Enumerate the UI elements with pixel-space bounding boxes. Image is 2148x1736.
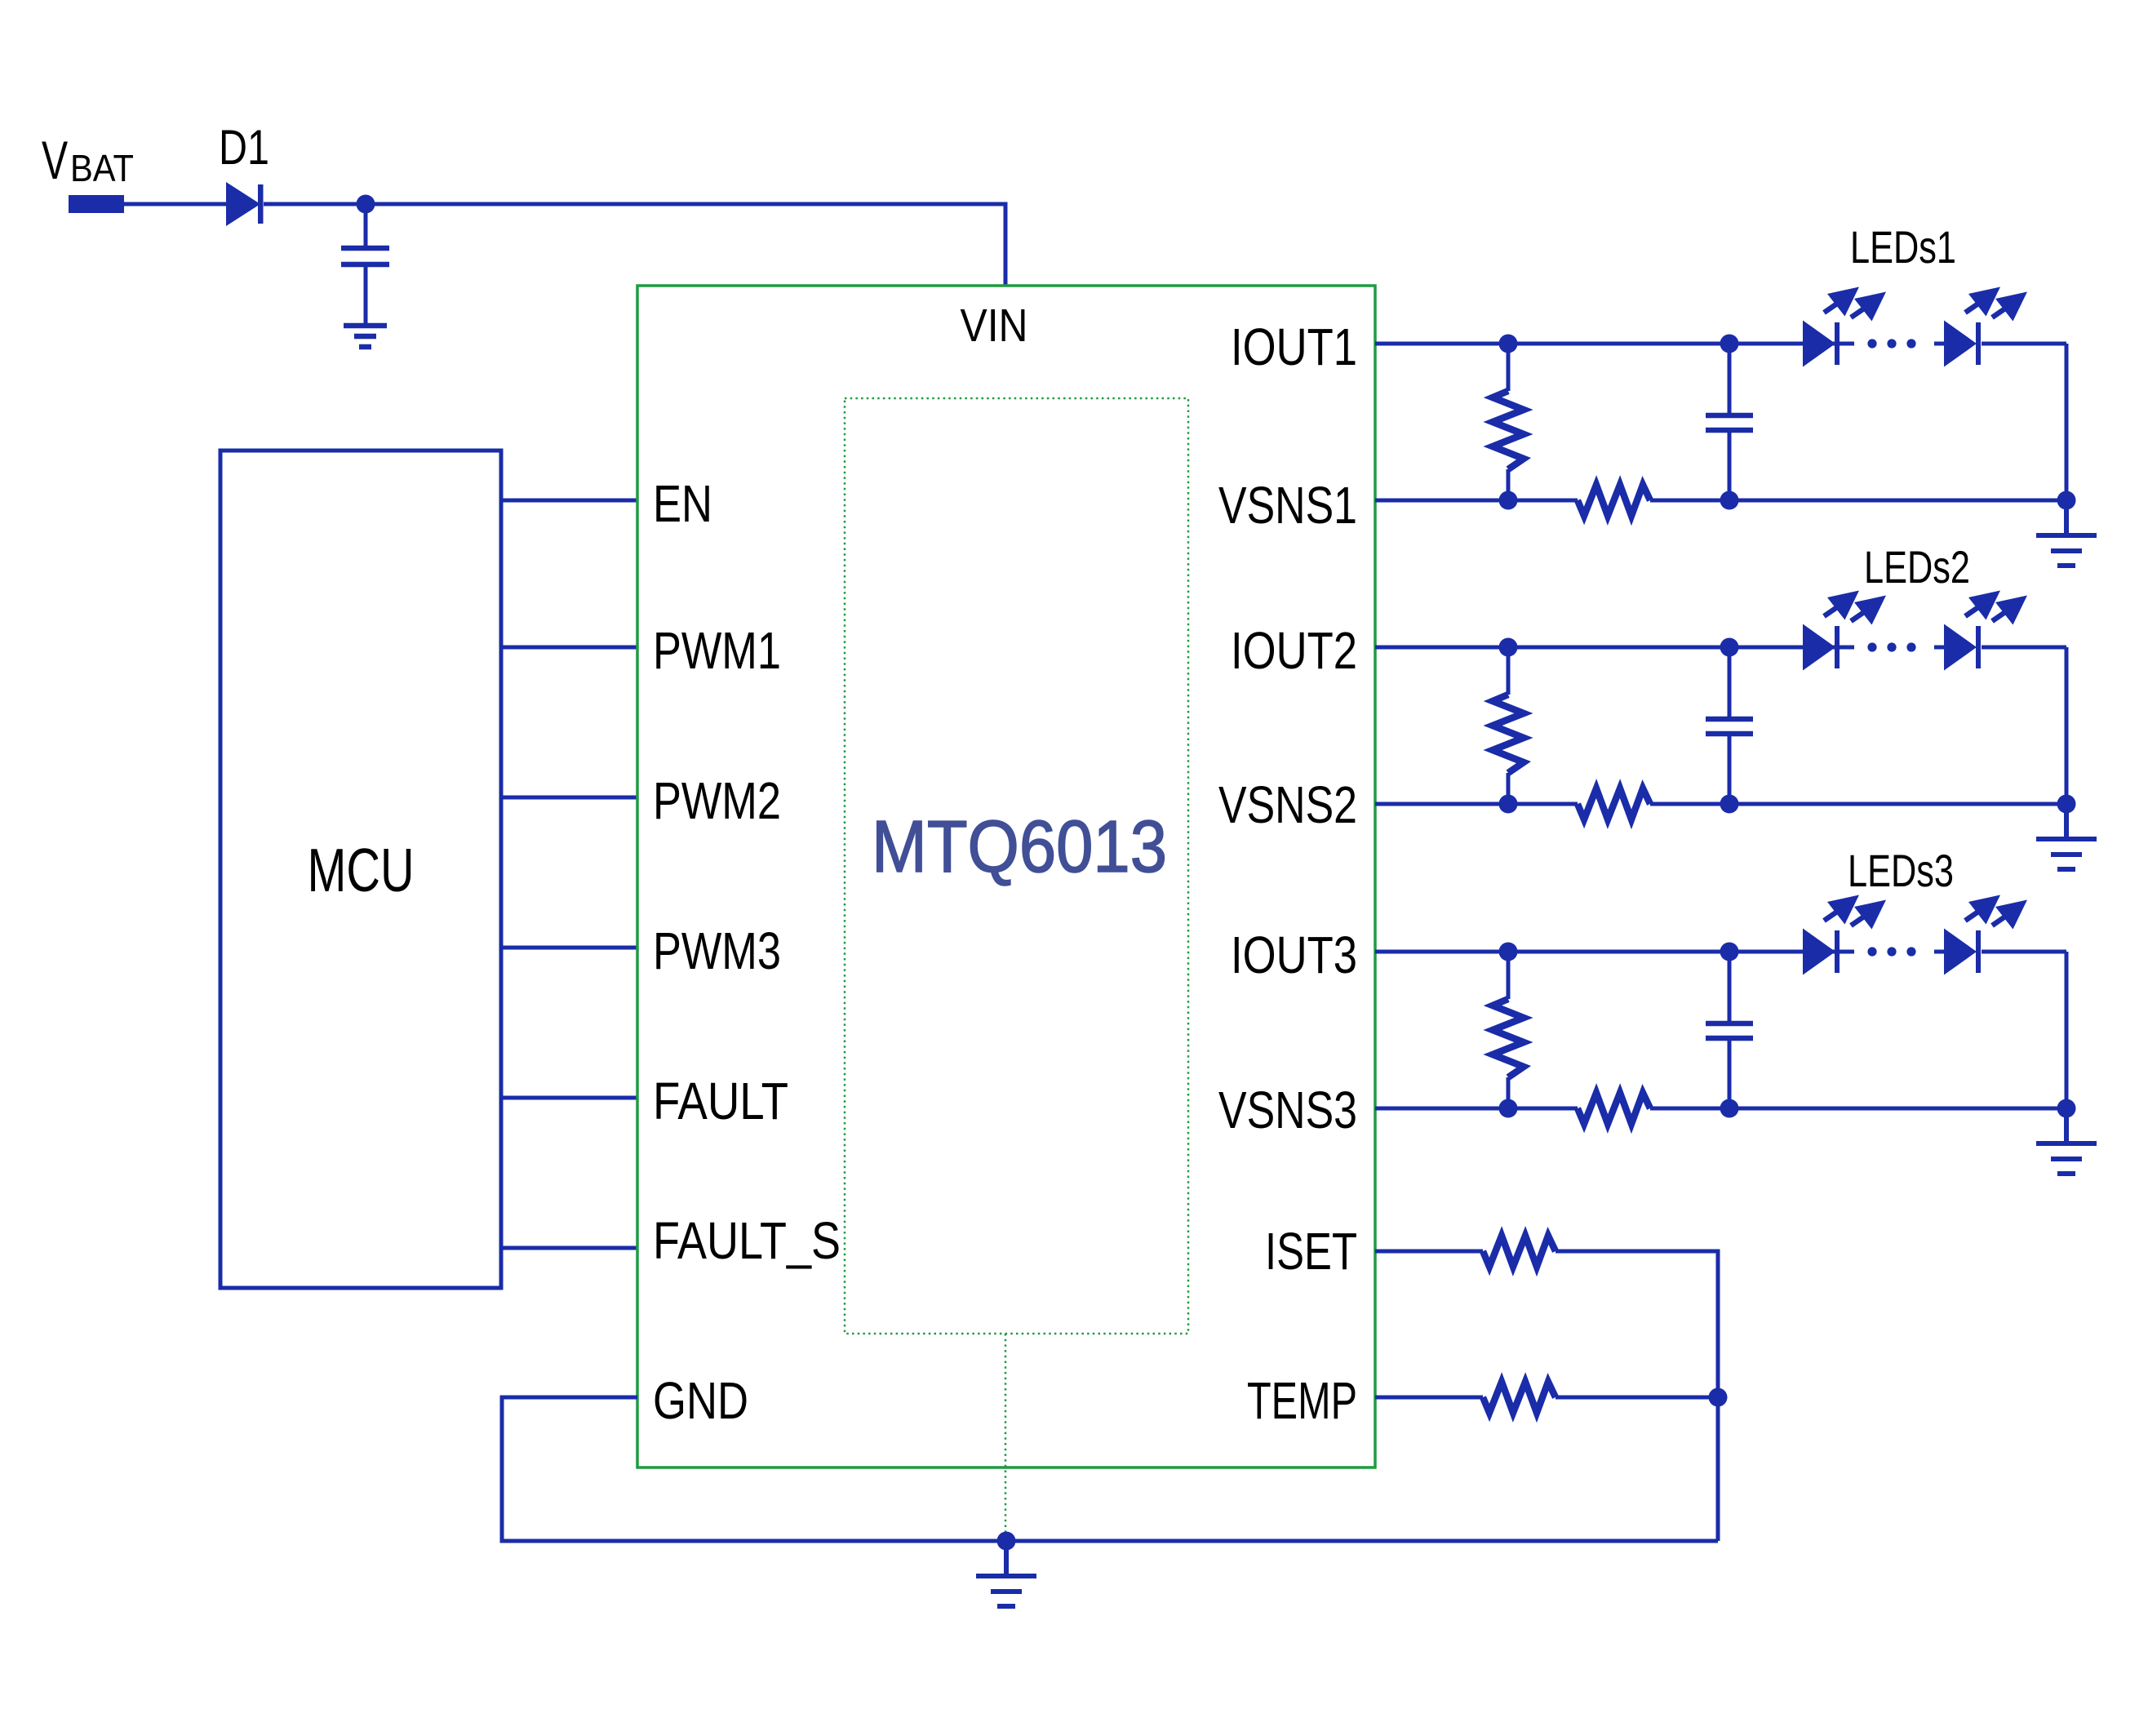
wire ISET resistor to corner — [1556, 1251, 1718, 1397]
svg-text:PWM3: PWM3 — [653, 921, 781, 980]
svg-text:V: V — [42, 131, 69, 191]
resistor R_ISET — [1483, 1236, 1556, 1267]
svg-text:MTQ6013: MTQ6013 — [872, 806, 1167, 888]
capacitor C_IN — [341, 204, 389, 323]
ground (input cap) — [344, 326, 387, 347]
wire MCU to FAULT — [501, 1096, 637, 1100]
LED channel 3 — [1375, 895, 2097, 1174]
IC MTQ6013 outline — [637, 286, 1375, 1467]
diode D1 — [226, 182, 264, 226]
svg-text:VSNS3: VSNS3 — [1218, 1081, 1357, 1139]
svg-text:EN: EN — [653, 474, 712, 533]
svg-text:FAULT: FAULT — [653, 1072, 788, 1130]
LED channel 2 — [1375, 591, 2097, 870]
wire diode to VIN — [264, 204, 1005, 286]
wire TEMP resistor to junction — [1556, 1396, 1718, 1400]
wire ISET — [1375, 1250, 1483, 1254]
svg-text:LEDs1: LEDs1 — [1850, 221, 1956, 273]
svg-text:PWM2: PWM2 — [653, 771, 781, 830]
node junction at input cap — [357, 195, 375, 214]
svg-text:VSNS2: VSNS2 — [1218, 775, 1357, 834]
wire GND pin to ground bus — [502, 1397, 1718, 1541]
dotted line GND path inside IC — [1005, 1334, 1007, 1534]
ground (main GND) — [976, 1541, 1036, 1606]
svg-text:GND: GND — [653, 1371, 748, 1430]
svg-text:LEDs2: LEDs2 — [1864, 541, 1970, 593]
svg-text:TEMP: TEMP — [1247, 1371, 1357, 1430]
svg-text:D1: D1 — [219, 120, 269, 175]
svg-text:PWM1: PWM1 — [653, 621, 781, 680]
wire MCU to PWM2 — [501, 796, 637, 800]
LED channel 1 (IOUT1/VSNS1, resistor, capacitor, sense resistor, LEDs, ground) — [1375, 287, 2097, 566]
svg-text:ISET: ISET — [1265, 1222, 1357, 1281]
MCU block — [220, 451, 501, 1288]
node ground bus junction — [997, 1532, 1016, 1551]
node ISET/TEMP junction — [1709, 1388, 1728, 1407]
svg-text:VSNS1: VSNS1 — [1218, 476, 1357, 535]
svg-text:LEDs3: LEDs3 — [1848, 845, 1954, 896]
svg-text:VIN: VIN — [961, 300, 1028, 352]
wire junction down to ground bus — [1716, 1397, 1720, 1541]
svg-text:IOUT3: IOUT3 — [1231, 926, 1357, 984]
node VBAT input terminal — [69, 195, 124, 213]
svg-text:BAT: BAT — [70, 147, 134, 189]
svg-text:MCU: MCU — [308, 836, 415, 904]
resistor R_TEMP — [1483, 1382, 1556, 1413]
svg-text:IOUT1: IOUT1 — [1231, 317, 1357, 376]
wire MCU to PWM1 — [501, 646, 637, 650]
IC MTQ6013 inner dotted block — [845, 398, 1188, 1334]
wire MCU to FAULT_S — [501, 1246, 637, 1250]
svg-text:IOUT2: IOUT2 — [1231, 621, 1357, 680]
wire TEMP — [1375, 1396, 1483, 1400]
wire VBAT to diode — [124, 202, 226, 206]
wire MCU to PWM3 — [501, 946, 637, 950]
wire MCU to EN — [501, 499, 637, 503]
svg-text:FAULT_S: FAULT_S — [653, 1211, 841, 1270]
